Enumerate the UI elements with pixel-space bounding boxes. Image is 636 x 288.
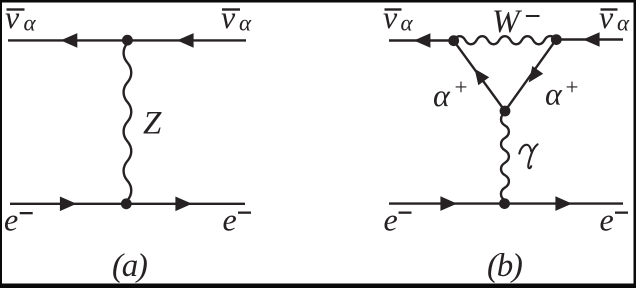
- vertex dot: (b) triangle bottom: [500, 106, 511, 117]
- vertex dot: (b) top-left: [448, 35, 459, 46]
- fermion line: alpha+ left diagonal of triangle: [454, 41, 505, 111]
- label: nu-bar alpha (a) top-right: [221, 0, 252, 36]
- label: alpha+ left of triangle: [433, 75, 467, 114]
- svg-text:(b): (b): [487, 248, 522, 284]
- svg-text:e: e: [223, 202, 237, 238]
- label: e- (a) bottom-right: [223, 202, 252, 238]
- svg-text:e: e: [384, 202, 398, 238]
- wire: diagram (a) top antineutrino line: [8, 39, 246, 41]
- frame left bar: [0, 0, 2, 288]
- label: e- (b) bottom-left: [384, 202, 412, 238]
- arrowhead: (b) left diagonal (points up-left toward top-left vertex): [475, 69, 490, 86]
- wire: diagram (b) top-left antineutrino segment: [389, 39, 454, 41]
- wire: diagram (b) top-right antineutrino segment: [556, 38, 623, 40]
- fermion line: alpha+ right diagonal of triangle: [505, 40, 556, 111]
- wire: diagram (a) bottom electron line: [10, 203, 245, 205]
- vertex dot: (b) top-right: [551, 34, 562, 45]
- arrowhead: (b) top-left segment (points left): [414, 33, 431, 48]
- arrowhead: (a) top line left arrow (points left): [61, 33, 78, 48]
- label: gamma photon: [519, 144, 537, 168]
- svg-text:e: e: [4, 202, 18, 238]
- arrowhead: (b) bottom line right arrow (points right): [555, 196, 572, 211]
- label: alpha+ right of triangle: [545, 75, 578, 112]
- arrowhead: (b) right diagonal (points down-left toward triangle bottom vertex): [529, 66, 544, 83]
- svg-text:α: α: [545, 76, 563, 112]
- svg-text:W: W: [492, 4, 522, 40]
- boson W- wavy propagator: [454, 36, 556, 44]
- arrowhead: (a) bottom line left arrow (points right): [60, 197, 77, 212]
- wire: diagram (b) bottom electron line: [389, 202, 623, 204]
- vertex dot: (a) top: [122, 35, 133, 46]
- frame right bar: [634, 0, 636, 288]
- svg-text:α: α: [239, 11, 252, 36]
- svg-text:α: α: [401, 11, 414, 36]
- label: W- boson: [492, 4, 540, 40]
- svg-text:ν: ν: [221, 0, 236, 35]
- svg-text:α: α: [617, 11, 630, 36]
- svg-text:(a): (a): [112, 248, 147, 284]
- boson gamma wavy propagator: [501, 113, 509, 200]
- label: nu-bar alpha (b) top-right: [599, 0, 630, 36]
- svg-text:ν: ν: [599, 0, 614, 35]
- frame top bar: [0, 0, 636, 3]
- svg-text:+: +: [455, 75, 468, 100]
- arrowhead: (a) bottom line right arrow (points right): [175, 197, 192, 212]
- label: nu-bar alpha (b) top-left: [383, 0, 414, 36]
- boson Z wavy propagator: [124, 43, 132, 200]
- vertex dot: (b) bottom line: [499, 198, 510, 209]
- svg-text:α: α: [433, 77, 451, 113]
- arrowhead: (b) top-right segment (points left): [583, 32, 600, 47]
- svg-text:Z: Z: [143, 105, 162, 141]
- arrowhead: (b) bottom line left arrow (points right): [440, 196, 457, 211]
- label: e- (b) bottom-right: [600, 202, 629, 238]
- label: nu-bar alpha (a) top-left: [5, 0, 37, 36]
- vertex dot: (a) bottom: [121, 198, 132, 209]
- frame bottom bar: [0, 284, 636, 288]
- svg-text:+: +: [566, 75, 579, 100]
- label: e- (a) bottom-left: [4, 202, 33, 238]
- svg-text:e: e: [600, 202, 614, 238]
- svg-text:ν: ν: [5, 0, 20, 35]
- svg-text:ν: ν: [383, 0, 398, 35]
- svg-text:α: α: [24, 11, 37, 36]
- arrowhead: (a) top line right arrow (points left): [177, 33, 194, 48]
